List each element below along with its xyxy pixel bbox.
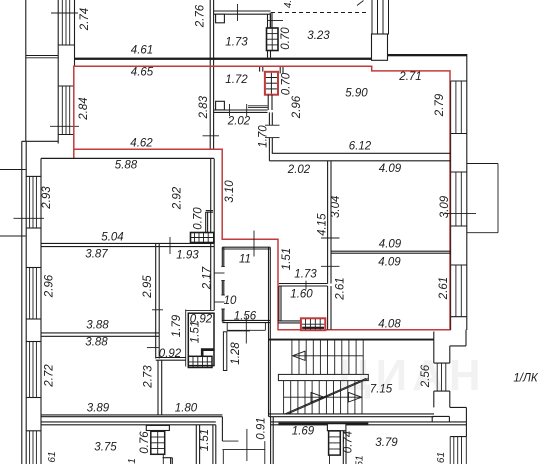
svg-text:1.51: 1.51 xyxy=(190,321,202,343)
svg-text:61: 61 xyxy=(47,451,58,462)
svg-text:4.61: 4.61 xyxy=(131,45,153,57)
wall room 1.51 left xyxy=(195,425,197,464)
shaft G3 ventilation room 1.73 xyxy=(267,28,279,51)
wall x327.6-331 lower xyxy=(327,286,329,330)
svg-text:2.76: 2.76 xyxy=(195,4,207,28)
wall jog right y407 xyxy=(450,406,467,408)
svg-text:1.56: 1.56 xyxy=(234,311,257,323)
wall room 11 top xyxy=(222,246,270,248)
svg-text:2.61: 2.61 xyxy=(335,277,347,300)
closet L-step xyxy=(201,348,214,356)
wall B x210.7-214.2 xyxy=(210,159,212,311)
wall pillar box top-center xyxy=(372,34,388,60)
stair upper flight treads xyxy=(291,341,293,375)
svg-text:1.28: 1.28 xyxy=(230,342,242,365)
svg-text:1.73: 1.73 xyxy=(294,268,317,280)
shaft G1 grid 0.76 xyxy=(151,431,165,454)
tick small diagonal at dashed end xyxy=(357,1,364,6)
wall stub left of shaft G4 xyxy=(259,67,261,72)
porch outline xyxy=(222,440,238,442)
wall below shaft G4 x268-272 xyxy=(267,95,269,110)
tick vestibule horizontal xyxy=(227,330,250,332)
red shaft G5 box room 1.60 xyxy=(301,318,325,330)
svg-text:ЦИАН: ЦИАН xyxy=(338,351,485,400)
svg-text:5.90: 5.90 xyxy=(345,88,368,100)
wall corridor bottom upper pair left xyxy=(41,414,222,416)
tick top stub xyxy=(267,20,283,22)
door niche N5 above shaft G6 xyxy=(327,424,346,431)
wire balcony rail left y236 xyxy=(0,235,26,237)
svg-text:2.84: 2.84 xyxy=(78,97,90,120)
svg-text:1.70: 1.70 xyxy=(258,125,270,148)
red outline unit boundary xyxy=(74,66,450,330)
svg-text:1.51: 1.51 xyxy=(281,248,293,270)
wire balcony rail left y169 xyxy=(0,169,26,171)
stair lower flight direction line with arrows xyxy=(284,396,363,398)
tick wall A at 2.83 xyxy=(203,135,220,137)
wall rooms divider y243-246 xyxy=(41,242,214,244)
tick room 1.60 top xyxy=(305,281,307,290)
window W4 band right xyxy=(455,81,457,134)
svg-text:10: 10 xyxy=(224,295,237,307)
wire step outer wall left xyxy=(22,140,58,142)
tick on window W1 bottom xyxy=(50,125,79,127)
svg-text:3.09: 3.09 xyxy=(439,195,451,218)
stair diagonal up line xyxy=(284,378,367,414)
svg-text:4.08: 4.08 xyxy=(378,319,401,331)
tick room 11 top xyxy=(253,231,255,257)
tick room 1.72 bottom wall b xyxy=(246,104,248,116)
wall stub top-center x270-272 xyxy=(269,13,271,29)
wall room 1.73 top xyxy=(214,10,271,12)
wall rooms 10-11 right xyxy=(268,247,270,417)
closet bold box xyxy=(188,313,214,365)
wall main top band right segment xyxy=(388,54,468,56)
wall room 1.60 top xyxy=(279,283,328,285)
svg-text:1.93: 1.93 xyxy=(176,250,199,262)
door jamb bath bottom xyxy=(265,137,280,139)
svg-text:1.60: 1.60 xyxy=(290,289,313,301)
window W5 2.56 xyxy=(436,363,438,391)
wall stub bottom left corner xyxy=(163,457,173,459)
svg-text:2.74: 2.74 xyxy=(79,8,91,31)
wall room 1.51 right xyxy=(212,425,214,464)
wall below shaft G1 xyxy=(162,454,164,464)
svg-text:0.92: 0.92 xyxy=(159,348,182,360)
svg-text:2.17: 2.17 xyxy=(202,266,214,290)
svg-text:2.02: 2.02 xyxy=(227,116,251,128)
svg-text:0.70: 0.70 xyxy=(193,207,205,230)
svg-text:0.91: 0.91 xyxy=(256,417,268,439)
svg-text:2.92: 2.92 xyxy=(172,186,184,210)
door jamb bath top xyxy=(265,124,280,126)
shaft G5 grid xyxy=(305,319,307,330)
door niche N2 room 1.72 xyxy=(216,101,225,110)
balcony rectangle right xyxy=(467,163,498,165)
closet outer thin line xyxy=(185,310,187,367)
wall corridor bottom upper pair stairs xyxy=(269,413,434,415)
wall room 1.60 left xyxy=(278,286,280,321)
door niche N1 room 1.73 xyxy=(216,14,225,23)
svg-text:4.: 4. xyxy=(283,0,294,8)
wall rooms divider y333-336 xyxy=(41,332,159,334)
svg-text:3.87: 3.87 xyxy=(85,249,108,261)
svg-text:2.95: 2.95 xyxy=(142,275,154,299)
tick vestibule vertical xyxy=(245,316,247,344)
svg-text:5.04: 5.04 xyxy=(101,232,123,244)
wire outer thin line left lower xyxy=(21,141,23,464)
svg-text:3.10: 3.10 xyxy=(224,180,236,203)
shaft G2 closet grid xyxy=(188,356,212,367)
tick room 1.72 bottom wall a xyxy=(229,104,231,116)
svg-text:4.62: 4.62 xyxy=(130,137,153,149)
wire balcony rail pair left xyxy=(26,55,58,57)
svg-text:4.09: 4.09 xyxy=(379,239,402,251)
svg-text:0.70: 0.70 xyxy=(280,27,292,50)
wall bottom lower pair left xyxy=(41,421,216,423)
svg-text:51: 51 xyxy=(355,455,366,464)
svg-text:4.65: 4.65 xyxy=(131,67,154,79)
wall room 5.88 top xyxy=(41,157,214,159)
svg-text:1/ЛК: 1/ЛК xyxy=(513,373,538,385)
svg-text:1.73: 1.73 xyxy=(225,37,248,49)
tick on window W4 xyxy=(445,212,476,214)
wall main top band left segment xyxy=(74,58,372,60)
wall right inner x433.8 xyxy=(433,332,435,364)
tick on window W1 top xyxy=(51,12,78,14)
svg-text:2.79: 2.79 xyxy=(434,93,446,117)
door niche N3 stub in wall B xyxy=(205,212,207,233)
wall shelf pair above 1.72 bottom xyxy=(248,105,268,107)
wall C x155.7-159.2 xyxy=(155,243,157,358)
svg-text:2.71: 2.71 xyxy=(398,71,421,83)
stair landing xyxy=(278,374,368,380)
wall rooms 10-11 left xyxy=(221,247,223,266)
door jambs corridor lower xyxy=(221,294,225,296)
wall jog near stairs door xyxy=(432,415,449,417)
svg-text:3.75: 3.75 xyxy=(94,442,117,454)
pilaster below vestibule xyxy=(223,332,226,371)
svg-text:4.15: 4.15 xyxy=(316,213,328,236)
svg-text:3.04: 3.04 xyxy=(330,196,342,218)
wall rooms 10-11 bottom xyxy=(222,319,270,321)
svg-text:1.72: 1.72 xyxy=(225,74,248,86)
wall x327.6-331 upper xyxy=(327,161,329,284)
wall 6.12 horizontal xyxy=(272,152,451,154)
svg-text:3.88: 3.88 xyxy=(86,320,109,332)
svg-text:0.70: 0.70 xyxy=(280,72,292,95)
wall C jog horizontal xyxy=(156,357,186,359)
window W3 top-center xyxy=(371,0,373,34)
vestibule 1.56 outline xyxy=(226,323,228,331)
svg-text:1.51: 1.51 xyxy=(199,429,211,451)
door niche N4 above shaft G1 xyxy=(146,425,169,430)
svg-text:1.80: 1.80 xyxy=(175,403,198,415)
svg-text:4.09: 4.09 xyxy=(379,163,402,175)
dashed line top corridor xyxy=(271,12,369,14)
svg-text:2.73: 2.73 xyxy=(143,365,155,389)
window W2 band left lower x26-40 xyxy=(25,141,27,464)
svg-text:2.83: 2.83 xyxy=(198,95,210,119)
svg-text:2.96: 2.96 xyxy=(44,274,56,298)
window W6 bottom right xyxy=(449,437,451,464)
svg-text:2.61: 2.61 xyxy=(438,277,450,300)
svg-text:2.02: 2.02 xyxy=(287,164,311,176)
window W1 band top-left x58-74 xyxy=(57,0,59,144)
wall room 1.69 left xyxy=(270,417,272,464)
tick on divider y243 xyxy=(169,237,171,254)
tick corridor door upper xyxy=(214,272,224,274)
wall right below window W5 xyxy=(433,391,435,407)
tick on room 1.73 top wall xyxy=(237,4,239,21)
wall stub right of shaft G4 xyxy=(279,67,281,73)
wall right below unit outer xyxy=(465,330,467,346)
wall bottom lower pair right xyxy=(271,421,467,423)
wall room 1.73 right xyxy=(267,14,269,28)
wall divider 4.09 rooms y251-253 xyxy=(331,250,451,252)
wall right of shaft G6 xyxy=(342,431,344,464)
tick on wall x329 at y266 xyxy=(321,265,340,267)
wall segment y321 x278-301 xyxy=(278,320,301,322)
svg-text:2.96: 2.96 xyxy=(291,95,303,119)
stair upper flight direction line with arrow xyxy=(294,355,363,357)
tick corridor door lower xyxy=(214,301,224,303)
svg-text:61: 61 xyxy=(436,452,447,463)
svg-text:1.79: 1.79 xyxy=(171,314,183,337)
svg-text:6.12: 6.12 xyxy=(349,141,372,153)
wire outer thin line top-left xyxy=(25,0,27,141)
entrance passage left wall xyxy=(221,417,223,441)
wire outer edge right top xyxy=(466,54,468,330)
tick porch 0.91 xyxy=(246,429,248,461)
tick on wall x329 at y238 xyxy=(321,237,340,239)
wall bottom lower pair bold entry segment xyxy=(278,423,368,426)
svg-text:1: 1 xyxy=(127,458,138,464)
tick left of wall C xyxy=(147,347,159,349)
stair lower flight treads xyxy=(283,381,285,414)
tick wall C at y309.7 xyxy=(152,309,163,311)
wall C lower x158-161.7 xyxy=(157,360,159,415)
wall bath right lower xyxy=(268,138,270,154)
shaft G7 ventilation grid xyxy=(191,233,214,243)
svg-text:11: 11 xyxy=(239,254,251,266)
wall room 1.72 bottom xyxy=(214,109,268,111)
tick on window W2 upper xyxy=(14,217,45,219)
svg-text:5.88: 5.88 xyxy=(115,159,138,171)
svg-text:2.72: 2.72 xyxy=(44,364,56,388)
svg-text:4.09: 4.09 xyxy=(378,257,401,269)
svg-text:2.93: 2.93 xyxy=(41,186,53,210)
door jambs corridor upper xyxy=(221,266,225,268)
shaft G4 grid xyxy=(270,73,272,94)
svg-text:1.69: 1.69 xyxy=(292,426,315,438)
wall stair top bold xyxy=(269,339,434,341)
svg-text:3.88: 3.88 xyxy=(85,337,108,349)
svg-text:3.89: 3.89 xyxy=(87,403,110,415)
svg-text:3.23: 3.23 xyxy=(307,30,330,42)
wall below shaft G6 xyxy=(329,455,331,464)
svg-text:0.74: 0.74 xyxy=(343,431,355,453)
shaft G6 grid 0.74 xyxy=(329,431,341,455)
red shaft G4 box room 1.72 xyxy=(265,72,278,95)
wall bath right x269-272 upper xyxy=(268,112,270,125)
svg-text:3.79: 3.79 xyxy=(375,437,398,449)
wall A vertical x210-213.5 xyxy=(209,0,211,149)
svg-text:0.76: 0.76 xyxy=(139,431,151,454)
